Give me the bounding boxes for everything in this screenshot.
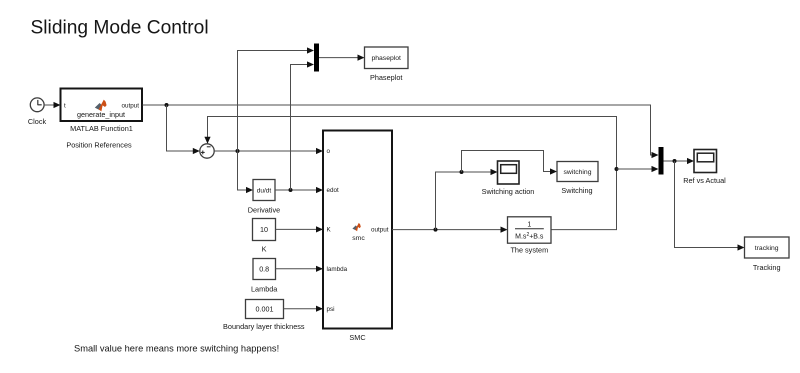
wire Derivative output to SMC port edot — [275, 187, 323, 193]
svg-text:output: output — [121, 102, 139, 109]
junction Derivative output branch — [289, 188, 293, 192]
svg-text:Boundary layer thickness: Boundary layer thickness — [223, 322, 305, 331]
block The system transfer function — [508, 217, 552, 243]
svg-text:o: o — [327, 148, 331, 155]
wire Clock to MATLAB Function1 — [44, 102, 61, 108]
junction SMC output branch — [434, 228, 438, 232]
svg-text:Derivative: Derivative — [248, 206, 280, 215]
scope Ref vs Actual — [694, 150, 717, 173]
wire SMC output to The system input — [392, 227, 508, 233]
junction Mux2 output branch — [673, 159, 677, 163]
svg-text:0.8: 0.8 — [259, 265, 269, 274]
svg-text:MATLAB Function1: MATLAB Function1 — [70, 124, 133, 133]
svg-text:psi: psi — [327, 306, 335, 313]
block switching To Workspace — [557, 162, 598, 182]
svg-text:1: 1 — [527, 221, 531, 228]
wire feedback from The system output to Sum minus input — [204, 117, 616, 230]
wire feedback branch to Mux2 input 2 — [617, 166, 659, 172]
constant block Lambda value 0.8 — [253, 259, 276, 280]
svg-text:0.001: 0.001 — [256, 305, 274, 314]
svg-text:du/dt: du/dt — [257, 187, 272, 194]
wire Lambda to SMC port lambda — [276, 266, 324, 272]
svg-text:Clock: Clock — [28, 117, 47, 126]
constant block Boundary layer thickness value 0.001 — [246, 300, 284, 319]
svg-text:phaseplot: phaseplot — [371, 55, 401, 62]
svg-text:switching: switching — [564, 169, 592, 176]
svg-text:SMC: SMC — [349, 333, 365, 342]
junction Sum output branch — [236, 149, 240, 153]
wire branch to switching To Workspace — [462, 151, 558, 175]
junction scope branch — [460, 170, 464, 174]
wire Mux1 output to phaseplot — [319, 55, 365, 61]
wire K to SMC port K — [276, 226, 324, 232]
sum block Sum — [200, 144, 214, 158]
svg-text:Switching: Switching — [561, 186, 592, 195]
wire Mux2 output to Ref vs Actual scope — [664, 158, 695, 164]
svg-text:edot: edot — [327, 187, 340, 194]
icon MATLAB logo in SMC — [352, 223, 360, 231]
wire branch up to Mux1 input 2 — [291, 61, 315, 190]
svg-text:K: K — [262, 245, 267, 254]
block tracking To Workspace — [745, 237, 790, 258]
scope Switching action — [498, 161, 520, 184]
svg-text:10: 10 — [260, 225, 268, 234]
svg-text:output: output — [371, 227, 389, 234]
svg-text:Ref vs Actual: Ref vs Actual — [683, 176, 726, 185]
svg-text:t: t — [64, 102, 66, 109]
svg-text:Small value here means more sw: Small value here means more switching ha… — [74, 344, 279, 354]
clock Clock — [28, 98, 47, 126]
wire branch down to tracking — [675, 161, 745, 251]
wire branch down to Derivative input — [238, 151, 254, 193]
junction feedback to Mux2 branch — [615, 167, 619, 171]
svg-text:Phaseplot: Phaseplot — [370, 73, 402, 82]
mux Mux2 — [659, 147, 664, 175]
svg-text:Switching action: Switching action — [482, 187, 535, 196]
icon MATLAB logo in MATLAB Function1 — [95, 100, 107, 112]
svg-text:The system: The system — [510, 246, 548, 255]
wire Sum output to SMC port o — [214, 148, 323, 154]
wire MATLAB Function1 output to Mux2 input 1 — [143, 105, 659, 158]
wire branch to Sum plus input — [167, 105, 200, 154]
svg-text:generate_input: generate_input — [77, 110, 125, 119]
svg-text:smc: smc — [352, 235, 365, 242]
mux Mux1 — [314, 44, 319, 72]
svg-text:Position References: Position References — [66, 140, 132, 149]
constant block K value 10 — [253, 219, 276, 241]
block MATLAB Function1 — [61, 89, 143, 122]
wire branch up to Mux1 input 1 — [238, 47, 315, 151]
svg-text:tracking: tracking — [755, 245, 779, 252]
junction on output wire — [165, 103, 169, 107]
svg-text:lambda: lambda — [327, 266, 348, 273]
block Derivative du/dt — [253, 180, 275, 201]
svg-text:M.s2+B.s: M.s2+B.s — [515, 232, 544, 241]
svg-text:Lambda: Lambda — [251, 284, 278, 293]
wire branch up to Switching action scope — [436, 169, 498, 230]
svg-text:Tracking: Tracking — [753, 263, 781, 272]
wire Boundary layer thickness to SMC port psi — [284, 306, 324, 312]
block SMC MATLAB Function — [323, 131, 392, 329]
svg-text:Sliding Mode Control: Sliding Mode Control — [31, 18, 209, 39]
block phaseplot To Workspace — [365, 47, 409, 69]
